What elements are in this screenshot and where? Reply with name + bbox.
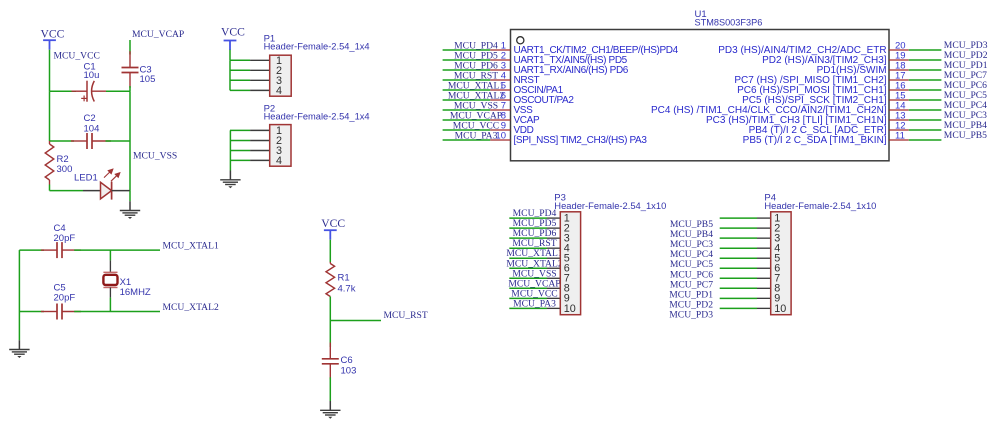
svg-text:C2: C2 — [84, 113, 96, 124]
net label MCU_VCAP — [132, 29, 184, 40]
net label MCU_VSS — [133, 150, 177, 161]
capacitor C5 — [41, 304, 81, 320]
net label MCU_VCC (P3) — [511, 288, 557, 299]
label C4 value 20pF — [54, 223, 76, 244]
pin 8 stub — [490, 119, 510, 121]
wire U1 pin 3 net MCU_PD6 — [443, 69, 491, 71]
IC U1 STM8S003F3P6 body — [511, 30, 890, 161]
svg-text:16MHZ: 16MHZ — [120, 287, 151, 298]
net label MCU_PC5 (P4) — [670, 259, 713, 270]
label C5 value 20pF — [54, 283, 76, 304]
svg-text:VCC: VCC — [40, 27, 64, 40]
svg-text:MCU_XTAL1: MCU_XTAL1 — [163, 241, 219, 252]
capacitor C6 — [322, 343, 339, 380]
net label MCU_PC7 (P4) — [670, 279, 713, 290]
net label MCU_VCC — [54, 51, 100, 62]
pin number 8 — [501, 111, 506, 122]
wire LED row left segment — [50, 190, 84, 192]
pin 9 stub — [490, 129, 510, 131]
label P3 — [554, 193, 566, 204]
pin number 18 — [895, 61, 906, 72]
pin 12 stub right — [889, 129, 909, 131]
pin name OSCIN/PA1 — [514, 85, 564, 96]
pin number 12 — [895, 121, 906, 132]
svg-text:Header-Female-2.54_1x4: Header-Female-2.54_1x4 — [264, 41, 370, 51]
label P3 part name — [554, 201, 666, 211]
pin number 9 — [501, 121, 506, 132]
svg-text:MCU_VCC: MCU_VCC — [54, 51, 100, 62]
wire P3 pin 5 net MCU_XTAL1 — [509, 257, 560, 259]
power symbol VCC (left block) — [40, 27, 64, 49]
wire U1 pin 18 net MCU_PD1 — [909, 69, 942, 71]
label P2 — [264, 104, 276, 115]
svg-text:4: 4 — [276, 155, 282, 167]
wire VCC stem to C1 rail — [49, 50, 51, 91]
label C1 value 10u — [84, 61, 100, 81]
label P1 — [264, 33, 276, 44]
net label MCU_XTAL2 — [163, 302, 219, 313]
resistor R2 — [45, 141, 54, 191]
pin name [SPI_NSS] TIM2_CH3/(HS) PA3 — [514, 135, 648, 146]
pin name PD3 (HS)/AIN4/TIM2_CH2/ADC_ETR — [718, 45, 886, 56]
net label MCU_PC3 (P4) — [670, 239, 713, 250]
wire P4 pin 1 net MCU_PB5 — [720, 217, 771, 219]
wire P1 pin 3 — [230, 79, 270, 81]
wire XTAL left vertical to ground — [18, 312, 20, 341]
wire C4 row right — [74, 249, 160, 251]
net label MCU_PC3 — [944, 110, 987, 121]
capacitor C4 — [41, 242, 81, 258]
label P4 — [764, 193, 776, 204]
net label MCU_PD5 (P3) — [513, 218, 557, 229]
net label MCU_PB4 (P4) — [670, 229, 713, 240]
wire C4 row left — [19, 249, 44, 251]
wire P4 pin 2 net MCU_PB4 — [720, 227, 771, 229]
svg-text:MCU_VSS: MCU_VSS — [133, 150, 177, 161]
ground (left block) — [120, 201, 140, 219]
wire junction to C6 — [329, 321, 331, 348]
pin number 16 — [895, 81, 906, 92]
pin number 2 — [501, 51, 506, 62]
wire P4 pin 4 net MCU_PC4 — [720, 247, 771, 249]
ground (reset block) — [320, 401, 340, 419]
net label MCU_RST — [384, 310, 428, 321]
svg-text:300: 300 — [57, 164, 73, 175]
wire U1 pin 9 net MCU_VCC — [443, 129, 491, 131]
svg-text:11: 11 — [895, 131, 905, 142]
net label MCU_PD1 — [944, 60, 988, 71]
svg-text:MCU_PD3: MCU_PD3 — [669, 309, 713, 320]
wire P1 pin 4 — [230, 89, 270, 91]
svg-text:MCU_RST: MCU_RST — [384, 310, 428, 321]
svg-text:MCU_VCAP: MCU_VCAP — [132, 29, 184, 40]
pin name PC3 (HS)/TIM1_CH3 [TLI] [TIM1_CH1N] — [706, 115, 887, 126]
pin number 6 — [501, 91, 506, 102]
net label MCU_PA3 (P3) — [513, 298, 556, 309]
svg-text:10: 10 — [774, 303, 786, 315]
wire P4 pin 9 net MCU_PD2 — [720, 297, 771, 299]
label P2 part name — [264, 112, 370, 122]
pin name PC4 (HS) /TIM1_CH4/CLK_CCO/AIN2/[TIM1_CH2N] — [651, 105, 887, 116]
svg-text:103: 103 — [341, 365, 357, 376]
svg-text:MCU_XTAL2: MCU_XTAL2 — [163, 302, 219, 313]
pin name UART1_RX/AIN6/(HS) PD6 — [514, 65, 629, 76]
wire P4 pin 3 net MCU_PC3 — [720, 237, 771, 239]
capacitor C1 (polarized) — [72, 81, 112, 102]
pin 17 stub right — [889, 79, 909, 81]
net label MCU_PD1 (P4) — [669, 289, 713, 300]
net label MCU_PD4 — [454, 40, 498, 51]
svg-text:[SPI_NSS] TIM2_CH3/(HS) PA3: [SPI_NSS] TIM2_CH3/(HS) PA3 — [514, 135, 648, 146]
pin number 1 — [501, 41, 506, 52]
pin 2 stub — [490, 59, 510, 61]
svg-text:STM8S003F3P6: STM8S003F3P6 — [695, 18, 763, 29]
net label MCU_XTAL1 (P3) — [506, 248, 562, 259]
net label MCU_PC6 (P4) — [670, 269, 713, 280]
label STM8S003F3P6 — [695, 18, 763, 29]
wire U1 pin 14 net MCU_PC4 — [909, 109, 942, 111]
pin 15 stub right — [889, 99, 909, 101]
wire U1 pin 2 net MCU_PD5 — [443, 59, 491, 61]
pin 1 stub — [490, 49, 510, 51]
pin 7 stub — [490, 109, 510, 111]
wire R1 to junction — [329, 297, 331, 321]
net label MCU_XTAL2 — [448, 90, 504, 101]
pin name VDD — [514, 125, 534, 136]
wire P4 pin 6 net MCU_PC6 — [720, 267, 771, 269]
pin name OSCOUT/PA2 — [514, 95, 575, 106]
label P4 part name — [764, 201, 876, 211]
capacitor C2 — [71, 133, 111, 149]
label C6 value 103 — [341, 355, 357, 376]
svg-text:105: 105 — [140, 74, 156, 85]
power symbol VCC (reset block) — [321, 217, 345, 240]
wire P3 pin 6 net MCU_XTAL2 — [509, 267, 560, 269]
net label MCU_PD3 — [944, 40, 988, 51]
svg-text:10: 10 — [495, 131, 506, 142]
net label MCU_PB4 — [944, 120, 987, 131]
wire P2 pin 1 — [230, 129, 270, 131]
wire U1 pin 13 net MCU_PC3 — [909, 119, 942, 121]
wire C1 row right segment — [106, 90, 130, 92]
pin name PD2 (HS)/AIN3/[TIM2_CH3] — [762, 55, 887, 66]
wire P3 pin 3 net MCU_PD6 — [509, 237, 560, 239]
pin 18 stub right — [889, 69, 909, 71]
wire C1 row left segment — [50, 90, 77, 92]
wire P3 pin 1 net MCU_PD4 — [509, 217, 560, 219]
svg-text:VCC: VCC — [321, 217, 345, 230]
pin number 7 — [501, 101, 506, 112]
wire P2 pin 2 — [230, 140, 270, 142]
net label MCU_PD2 — [944, 50, 988, 61]
svg-text:R2: R2 — [57, 154, 69, 165]
svg-text:4.7k: 4.7k — [338, 283, 356, 294]
pin number 4 — [501, 71, 506, 82]
wire U1 pin 8 net MCU_VCAP — [443, 119, 491, 121]
label R2 value 300 — [57, 154, 73, 175]
wire P4 pin 7 net MCU_PC7 — [720, 277, 771, 279]
svg-text:VCC: VCC — [221, 26, 245, 39]
label C2 value 104 — [84, 113, 100, 135]
net label MCU_XTAL2 (P3) — [506, 258, 562, 269]
wire U1 pin 12 net MCU_PB4 — [909, 129, 942, 131]
wire U1 pin 10 net MCU_PA3 — [443, 139, 491, 141]
svg-text:MCU_PB5: MCU_PB5 — [944, 130, 987, 141]
pin number 15 — [895, 91, 906, 102]
wire C2 row left segment — [50, 140, 75, 142]
svg-text:Header-Female-2.54_1x4: Header-Female-2.54_1x4 — [264, 112, 370, 122]
wire left vertical C1 to C2 — [49, 91, 51, 141]
connector P1 Header-Female-2.54_1x4 — [270, 55, 292, 97]
wire U1 pin 4 net MCU_RST — [443, 79, 491, 81]
pin name UART1_TX/AIN5/(HS) PD5 — [514, 55, 628, 66]
label LED1 — [74, 172, 98, 183]
wire U1 pin 7 net MCU_VSS — [443, 109, 491, 111]
pin 19 stub right — [889, 59, 909, 61]
wire U1 pin 20 net MCU_PD3 — [909, 49, 942, 51]
net label MCU_PC4 — [944, 100, 987, 111]
wire XTAL left vertical — [18, 250, 20, 311]
wire C3 to C1 rail — [129, 86, 131, 91]
connector P2 Header-Female-2.54_1x4 — [270, 125, 291, 167]
svg-text:10: 10 — [564, 303, 576, 315]
net label MCU_PB5 — [944, 130, 987, 141]
pin name UART1_CK/TIM2_CH1/BEEP/(HS)PD4 — [514, 45, 679, 56]
net label MCU_PC4 (P4) — [670, 249, 713, 260]
svg-text:MCU_PA3: MCU_PA3 — [455, 130, 498, 141]
pin 5 stub — [490, 89, 510, 91]
svg-text:PB5 (T)/I 2 C_SDA [TIM1_BKIN]: PB5 (T)/I 2 C_SDA [TIM1_BKIN] — [743, 135, 887, 146]
label U1 — [695, 9, 707, 20]
wire P2 pin 4 — [230, 159, 270, 161]
net label MCU_PA3 — [455, 130, 498, 141]
wire P3 pin 2 net MCU_PD5 — [509, 227, 560, 229]
pin number 20 — [895, 41, 906, 52]
wire U1 pin 15 net MCU_PC5 — [909, 99, 942, 101]
wire U1 pin 11 net MCU_PB5 — [909, 139, 942, 141]
pin name PC6 (HS)/SPI_MOSI [TIM1_CH1] — [737, 85, 887, 96]
pin name VCAP — [514, 115, 540, 126]
svg-text:10u: 10u — [84, 70, 100, 81]
connector P3 Header-Female-2.54_1x10 — [560, 212, 580, 315]
svg-text:Header-Female-2.54_1x10: Header-Female-2.54_1x10 — [554, 201, 666, 211]
resistor R1 — [326, 262, 335, 297]
net label MCU_PC5 — [944, 90, 987, 101]
net label MCU_VCC — [453, 120, 499, 131]
wire C5 row right — [74, 311, 160, 313]
net label MCU_PD3 (P4) — [669, 309, 713, 320]
ground (P2) — [220, 171, 240, 189]
wire U1 pin 17 net MCU_PC7 — [909, 79, 942, 81]
wire U1 pin 1 net MCU_PD4 — [443, 49, 491, 51]
svg-text:MCU_PA3: MCU_PA3 — [513, 298, 556, 309]
pin name PB5 (T)/I 2 C_SDA [TIM1_BKIN] — [743, 135, 887, 146]
svg-text:4: 4 — [276, 85, 282, 97]
pin 3 stub — [490, 69, 510, 71]
wire MCU_VCAP drop to C3 — [129, 40, 131, 55]
pin 20 stub right — [889, 49, 909, 51]
wire right vertical C1 to LED row — [129, 91, 131, 190]
wire U1 pin 5 net MCU_XTAL1 — [443, 89, 491, 91]
pin number 11 — [895, 131, 905, 142]
pin name PC5 (HS)/SPI_SCK [TIM2_CH1] — [742, 95, 887, 106]
wire P1 bus vertical — [229, 60, 231, 90]
pin number 5 — [501, 81, 506, 92]
net label MCU_VSS (P3) — [512, 268, 556, 279]
net label MCU_PD5 — [454, 50, 498, 61]
net label MCU_PD4 (P3) — [513, 208, 557, 219]
wire crystal branch top — [109, 250, 111, 260]
pin number 10 — [495, 131, 506, 142]
net label MCU_XTAL1 — [448, 80, 504, 91]
capacitor C3 — [122, 51, 139, 88]
wire C2 row right segment — [106, 140, 131, 142]
pin 16 stub right — [889, 89, 909, 91]
svg-text:Header-Female-2.54_1x10: Header-Female-2.54_1x10 — [764, 201, 876, 211]
pin name PD1(HS)/SWIM — [817, 65, 887, 76]
pin name PB4 (T)/I 2 C_SCL [ADC_ETR] — [749, 125, 887, 136]
wire C6 to ground — [329, 377, 331, 401]
net label MCU_VCAP (P3) — [508, 278, 560, 289]
wire P1 pin 2 — [230, 69, 270, 71]
wire VCC to P1 bus — [229, 50, 231, 61]
wire P1 pin 1 — [230, 59, 270, 61]
net label MCU_RST — [454, 70, 498, 81]
pin 13 stub right — [889, 119, 909, 121]
wire P4 pin 5 net MCU_PC5 — [720, 257, 771, 259]
net label MCU_PC7 — [944, 70, 987, 81]
pin 4 stub — [490, 79, 510, 81]
wire P4 pin 8 net MCU_PD1 — [720, 287, 771, 289]
net label MCU_RST (P3) — [512, 238, 556, 249]
wire P2 pin 3 — [230, 150, 270, 152]
svg-text:R1: R1 — [338, 272, 350, 283]
pin name PC7 (HS) /SPI_MISO [TIM1_CH2] — [734, 75, 886, 86]
pin 10 stub — [490, 139, 510, 141]
crystal X1 16MHZ — [103, 260, 117, 297]
connector P4 Header-Female-2.54_1x10 — [771, 212, 791, 315]
label X1 value 16MHZ — [120, 277, 151, 298]
pin 14 stub right — [889, 109, 909, 111]
svg-text:20pF: 20pF — [54, 233, 76, 244]
label C3 value 105 — [140, 65, 156, 86]
pin number 17 — [895, 71, 906, 82]
wire P2 bus vertical — [229, 130, 231, 170]
power symbol VCC (P1) — [221, 26, 245, 50]
wire P3 pin 4 net MCU_RST — [509, 247, 560, 249]
net label MCU_PD2 (P4) — [669, 299, 713, 310]
pin name VSS — [514, 105, 534, 116]
pin 6 stub — [490, 99, 510, 101]
wire crystal branch bottom — [109, 298, 111, 312]
net label MCU_PD6 (P3) — [513, 228, 557, 239]
label R1 value 4.7k — [338, 272, 356, 294]
wire LED row to ground — [129, 191, 131, 202]
svg-text:104: 104 — [84, 123, 100, 134]
net label MCU_XTAL1 — [163, 241, 219, 252]
ground (crystal block) — [9, 340, 29, 358]
wire P4 pin 10 net MCU_PD3 — [720, 307, 771, 309]
net label MCU_PC6 — [944, 80, 987, 91]
pin 11 stub right — [889, 139, 909, 141]
svg-text:20pF: 20pF — [54, 292, 76, 303]
pin number 13 — [895, 111, 906, 122]
pin number 14 — [895, 101, 906, 112]
wire U1 pin 16 net MCU_PC6 — [909, 89, 942, 91]
wire P3 pin 7 net MCU_VSS — [509, 277, 560, 279]
LED LED1 — [83, 169, 130, 199]
pin name NRST — [514, 75, 540, 86]
net label MCU_VCAP — [450, 110, 502, 121]
pin number 3 — [501, 61, 506, 72]
wire U1 pin 19 net MCU_PD2 — [909, 59, 942, 61]
wire U1 pin 6 net MCU_XTAL2 — [443, 99, 491, 101]
net label MCU_VSS — [454, 100, 498, 111]
wire P3 pin 9 net MCU_VCC — [509, 297, 560, 299]
wire VCC to R1 — [329, 240, 331, 262]
wire P3 pin 8 net MCU_VCAP — [509, 287, 560, 289]
svg-text:LED1: LED1 — [74, 172, 98, 183]
wire MCU_RST stub — [330, 320, 381, 322]
pin number 19 — [895, 51, 906, 62]
net label MCU_PB5 (P4) — [670, 219, 713, 230]
wire P3 pin 10 net MCU_PA3 — [509, 307, 560, 309]
net label MCU_PD6 — [454, 60, 498, 71]
wire C5 row left — [19, 311, 44, 313]
label P1 part name — [264, 41, 370, 51]
